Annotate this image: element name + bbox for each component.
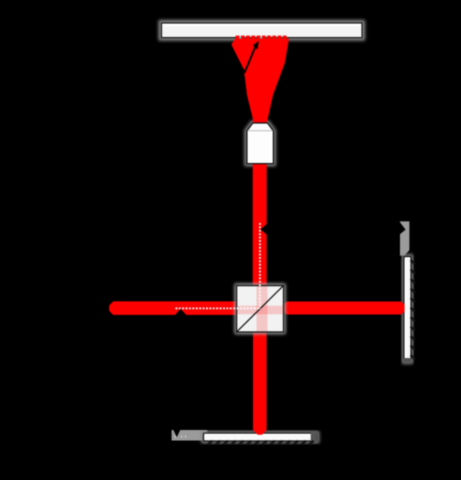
fringe teeth on screen (236, 36, 287, 41)
cyan fringe dots (239, 37, 262, 39)
beam cube to bottom mirror (253, 332, 267, 435)
hatching behind right mirror (411, 260, 415, 359)
arrow in fan (245, 41, 259, 73)
diverging beam fan (large lobe) (244, 39, 289, 123)
right mirror M1 (movable) (404, 257, 412, 363)
beam cube to right mirror (283, 302, 404, 315)
beam splitter cube (237, 286, 284, 332)
dashed return-beam axis (horizontal) (175, 307, 260, 309)
screen (viewing screen, top) (161, 23, 363, 39)
black arrowhead on horizontal beam (174, 309, 187, 316)
beam lens to cube (253, 163, 267, 286)
diverging beam fan (small lobe) (231, 39, 259, 70)
lens glow (247, 123, 274, 164)
hatching behind bottom mirror (208, 441, 314, 445)
black arrowhead on vertical beam (260, 223, 268, 236)
lens (247, 123, 274, 164)
dashed return-beam axis (vertical) (259, 223, 261, 309)
bottom mirror M2 (fixed) (204, 432, 318, 442)
gray motion arrow above right mirror (400, 221, 410, 255)
gray motion arrow left of bottom mirror (172, 430, 208, 441)
beam laser to cube (left) (109, 301, 236, 315)
